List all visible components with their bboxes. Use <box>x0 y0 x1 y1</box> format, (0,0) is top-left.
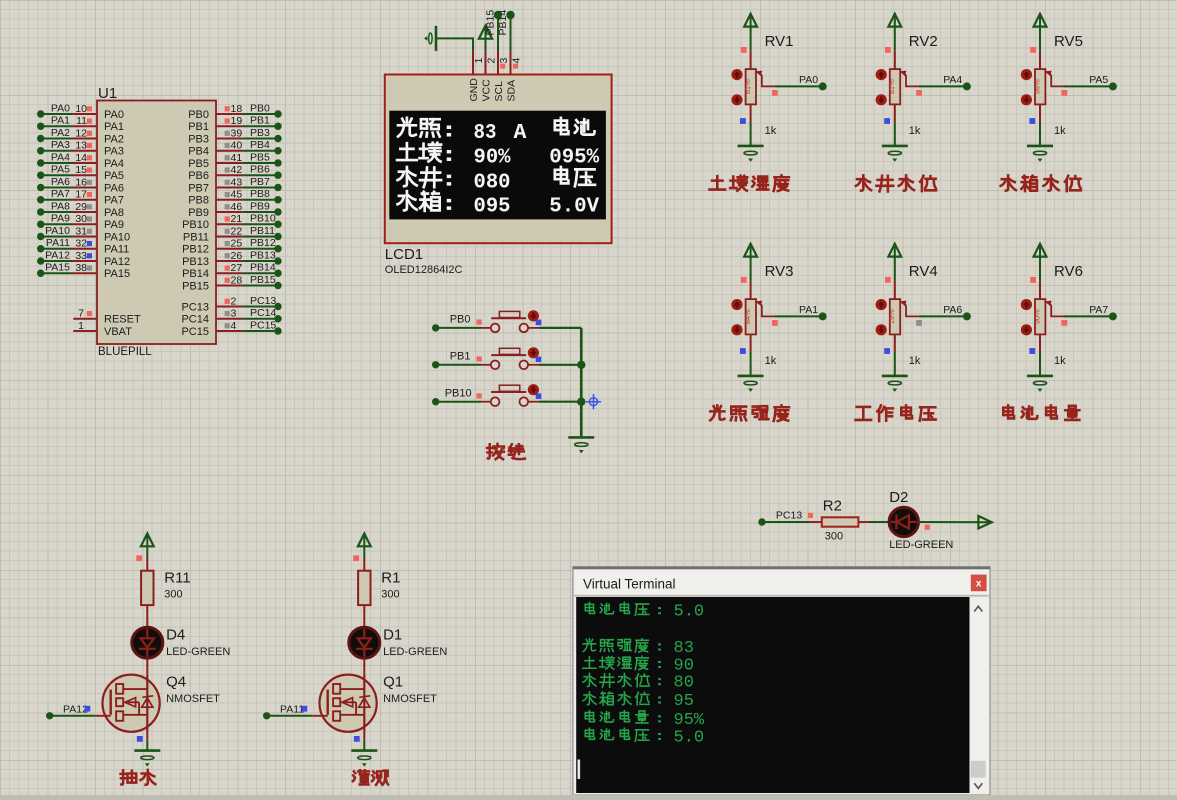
caption Q1 <box>353 770 388 785</box>
svg-text:PA2: PA2 <box>51 127 70 139</box>
svg-text:PA3: PA3 <box>51 139 70 151</box>
svg-text:PB8: PB8 <box>250 188 270 200</box>
svg-text:PA10: PA10 <box>45 225 70 237</box>
svg-text:PA4: PA4 <box>104 158 124 170</box>
terminal text: well 80 <box>583 673 694 692</box>
svg-text:1k: 1k <box>1054 125 1066 137</box>
svg-text:11: 11 <box>76 115 87 127</box>
svg-text:17: 17 <box>75 189 87 201</box>
svg-text:PB11: PB11 <box>183 231 209 243</box>
svg-text:90: 90 <box>674 657 694 676</box>
push button PB0 <box>491 311 528 332</box>
svg-text:NMOSFET: NMOSFET <box>166 693 220 705</box>
svg-text:PA1: PA1 <box>799 304 818 316</box>
svg-text:61%: 61% <box>743 79 752 94</box>
interactive decrement button RV6 <box>1021 324 1032 335</box>
wire D2 to power arrow <box>919 521 992 523</box>
pin PC14 (3) wire, node PC14 <box>181 307 281 325</box>
pin PA10 (31) wire, node PA10 <box>37 225 130 243</box>
svg-text:PB10: PB10 <box>182 219 209 231</box>
svg-text:95%: 95% <box>674 711 705 730</box>
wire D1 to Q1 drain <box>363 658 365 675</box>
svg-text:PB9: PB9 <box>250 200 270 212</box>
svg-text:PA7: PA7 <box>51 188 70 200</box>
node PA11 gate wire <box>263 704 328 720</box>
ground (LCD, pointing left) <box>424 26 436 51</box>
wire RV5 bottom <box>1039 104 1041 145</box>
svg-text:PA1: PA1 <box>51 115 70 127</box>
state square R11 top <box>136 555 142 561</box>
svg-text:26: 26 <box>231 250 243 262</box>
state square RV2 pin3 <box>884 118 890 124</box>
LCD pin4 state square <box>513 64 518 69</box>
LED D4 LED-GREEN <box>132 626 231 658</box>
svg-text:VBAT: VBAT <box>104 326 132 338</box>
potentiometer RV3 1k body <box>743 263 794 367</box>
pin PA3 (13) wire, node PA3 <box>37 139 124 157</box>
LCD1 OLED12864I2C display body <box>385 75 612 277</box>
power VCC arrow at LCD pin 2 <box>479 26 492 52</box>
svg-text:BLUEPILL: BLUEPILL <box>98 346 152 358</box>
svg-text:PA6: PA6 <box>104 182 124 194</box>
power arrow (RV4 top) <box>888 244 901 257</box>
wire R1 top <box>363 546 365 570</box>
LCD pin 2 VCC stub and number <box>481 51 498 102</box>
svg-text:95: 95 <box>674 692 694 711</box>
svg-text:080: 080 <box>474 170 511 194</box>
interactive actuator button PB0 <box>528 310 539 321</box>
svg-text:PB0: PB0 <box>188 109 209 121</box>
svg-text:22: 22 <box>231 225 243 237</box>
svg-text:PB13: PB13 <box>250 249 276 261</box>
svg-text:PC15: PC15 <box>250 319 276 331</box>
state square RV5 pin3 <box>1029 118 1035 124</box>
wire RV5 top <box>1039 27 1041 70</box>
svg-text:R11: R11 <box>164 570 190 587</box>
node PA12 gate wire <box>46 704 111 720</box>
pin PB14 (27) wire, node PB14 <box>182 262 282 280</box>
svg-text:13: 13 <box>75 140 87 152</box>
svg-text:PC13: PC13 <box>776 509 802 521</box>
svg-text:PB0: PB0 <box>250 102 270 114</box>
pin PB11 (22) wire, node PB11 <box>183 225 282 243</box>
svg-text:1k: 1k <box>765 355 777 367</box>
LCD pin3 state square <box>500 64 505 69</box>
svg-text:PC14: PC14 <box>250 307 276 319</box>
Virtual Terminal screen <box>576 597 969 793</box>
svg-text:PB8: PB8 <box>188 195 209 207</box>
resistor R11 300 <box>141 570 191 606</box>
state square button PB0 <box>536 320 542 326</box>
microcontroller U1 BLUEPILL body <box>97 85 216 358</box>
svg-text:PB7: PB7 <box>188 182 209 194</box>
svg-text:PA9: PA9 <box>51 213 70 225</box>
interactive decrement button RV1 <box>731 94 742 105</box>
svg-text:45: 45 <box>231 189 243 201</box>
svg-text:RV5: RV5 <box>1054 33 1083 50</box>
svg-text:RV2: RV2 <box>909 33 938 50</box>
svg-text:PA11: PA11 <box>104 244 129 256</box>
svg-text:PA1: PA1 <box>104 121 124 133</box>
state square RV2 pin1 <box>885 47 891 53</box>
pin PB13 (26) wire, node PB13 <box>182 249 282 267</box>
interactive actuator button PB10 <box>528 384 539 395</box>
Virtual Terminal window frame <box>573 567 990 795</box>
state square R1 top <box>353 555 359 561</box>
wire RV3 bottom <box>750 334 752 376</box>
svg-text:PA10: PA10 <box>104 231 130 243</box>
svg-text:1k: 1k <box>909 125 921 137</box>
svg-text:1: 1 <box>473 58 485 64</box>
state square RV5 pin1 <box>1030 47 1036 53</box>
ground (RV2) <box>882 146 908 162</box>
wiper arrow and wire RV1 to node PA0 <box>756 71 827 96</box>
ground (RV1) <box>738 146 764 162</box>
state square RV6 pin1 <box>1030 277 1036 283</box>
pin PB1 (19) wire, node PB1 <box>188 115 281 133</box>
svg-text:PA15: PA15 <box>45 262 70 274</box>
state square button PB10 <box>536 393 542 399</box>
svg-text:4: 4 <box>231 320 237 332</box>
svg-text:PA4: PA4 <box>51 151 70 163</box>
wire R1 to D1 <box>363 605 365 627</box>
svg-text:46: 46 <box>231 201 243 213</box>
wire RV3 top <box>750 257 752 300</box>
svg-text:PB14: PB14 <box>497 10 509 36</box>
svg-text:39: 39 <box>231 127 243 139</box>
potentiometer RV4 1k body <box>887 263 938 367</box>
wiper arrow and wire RV6 to node PA7 <box>1045 301 1117 326</box>
svg-text:90%: 90% <box>1032 309 1041 324</box>
Virtual Terminal scrollbar <box>970 597 987 793</box>
svg-text:PB15: PB15 <box>485 10 497 36</box>
svg-text:PB10: PB10 <box>250 213 276 225</box>
svg-text:300: 300 <box>164 589 182 601</box>
svg-text:19%: 19% <box>887 309 896 324</box>
svg-text:29: 29 <box>75 201 87 213</box>
svg-text:300: 300 <box>825 531 843 543</box>
potentiometer RV2 1k body <box>887 33 938 137</box>
wire LCD SCL pin to node PB15 <box>485 10 503 51</box>
svg-text:x: x <box>976 579 982 590</box>
ground (RV6) <box>1027 376 1053 392</box>
pin PB12 (25) wire, node PB12 <box>182 237 282 255</box>
ground (RV5) <box>1027 146 1053 162</box>
wire D4 to Q4 drain <box>146 658 148 675</box>
wire RV1 bottom <box>750 104 752 145</box>
svg-text:PB6: PB6 <box>188 170 209 182</box>
interactive increment button RV2 <box>876 69 887 80</box>
caption RV5 <box>1001 175 1081 191</box>
svg-text:U1: U1 <box>98 85 117 102</box>
caption Q4 <box>121 770 156 785</box>
svg-text:1k: 1k <box>1054 355 1066 367</box>
power arrow (RV2 top) <box>888 14 901 27</box>
pin PB9 (46) wire, node PB9 <box>188 200 281 218</box>
caption RV3 <box>710 405 789 421</box>
svg-text:21: 21 <box>231 213 243 225</box>
svg-text:PA9: PA9 <box>104 219 124 231</box>
svg-text:30: 30 <box>75 213 87 225</box>
wiper arrow and wire RV2 to node PA4 <box>900 71 971 96</box>
svg-text:LCD1: LCD1 <box>385 246 423 263</box>
svg-text:PA12: PA12 <box>63 704 88 716</box>
ground (RV3) <box>738 376 764 392</box>
pin PB8 (45) wire, node PB8 <box>188 188 281 206</box>
pin PA5 (15) wire, node PA5 <box>37 164 124 182</box>
svg-text:PA11: PA11 <box>46 237 70 249</box>
svg-text:PB3: PB3 <box>250 127 270 139</box>
svg-text:PB0: PB0 <box>450 314 471 326</box>
LCD screen text row4: tank value <box>398 191 600 218</box>
svg-text:PA0: PA0 <box>104 109 124 121</box>
caption RV6 <box>1003 405 1079 420</box>
svg-text:38: 38 <box>75 262 87 274</box>
svg-text:PB1: PB1 <box>450 351 471 363</box>
pin PA12 (33) wire, node PA12 <box>37 249 130 267</box>
selection crosshair marker <box>586 394 601 409</box>
svg-text:SDA: SDA <box>506 80 518 102</box>
pin PA6 (16) wire, node PA6 <box>37 176 124 194</box>
svg-text:1: 1 <box>78 320 84 332</box>
svg-text:R1: R1 <box>381 570 400 587</box>
LED D1 LED-GREEN <box>349 626 448 658</box>
svg-text:PB15: PB15 <box>250 274 276 286</box>
svg-text:PA7: PA7 <box>104 195 124 207</box>
node PC13 wire <box>758 509 822 525</box>
svg-text:PB11: PB11 <box>250 225 275 237</box>
svg-text:PC13: PC13 <box>181 301 209 313</box>
svg-text:D1: D1 <box>383 626 402 643</box>
svg-text:10: 10 <box>75 103 87 115</box>
state square RV3 pin1 <box>741 277 747 283</box>
svg-text:PA0: PA0 <box>51 102 70 114</box>
svg-text:PB14: PB14 <box>182 268 209 280</box>
svg-text:3: 3 <box>498 58 510 64</box>
svg-text:PC14: PC14 <box>181 314 209 326</box>
svg-text:14: 14 <box>75 152 87 164</box>
interactive increment button RV5 <box>1021 69 1032 80</box>
pin PC13 (2) wire, node PC13 <box>181 295 281 313</box>
svg-text:095%: 095% <box>549 146 599 170</box>
svg-text:PC15: PC15 <box>181 326 209 338</box>
pin PA2 (12) wire, node PA2 <box>37 127 124 145</box>
pin PA4 (14) wire, node PA4 <box>37 151 124 169</box>
svg-text:PB1: PB1 <box>188 121 209 133</box>
svg-text:OLED12864I2C: OLED12864I2C <box>385 264 463 276</box>
pin PA7 (17) wire, node PA7 <box>37 188 124 206</box>
power arrow (RV6 top) <box>1034 244 1047 257</box>
svg-text:7: 7 <box>78 308 84 320</box>
pin PA0 (10) wire, node PA0 <box>37 102 124 120</box>
terminal text: soil 90 <box>583 656 694 675</box>
svg-text:PA6: PA6 <box>51 176 70 188</box>
svg-text:PA7: PA7 <box>1089 304 1108 316</box>
pin PB6 (42) wire, node PB6 <box>188 164 281 182</box>
svg-text:5.0: 5.0 <box>674 729 705 748</box>
svg-text:095: 095 <box>474 195 511 219</box>
pin PA8 (29) wire, node PA8 <box>37 200 124 218</box>
power arrow (RV5 top) <box>1034 14 1047 27</box>
wire RV1 top <box>750 27 752 70</box>
svg-text:PA5: PA5 <box>104 170 124 182</box>
pin PA11 (32) wire, node PA11 <box>37 237 129 255</box>
terminal text: battery voltage 5.0 <box>585 602 704 621</box>
svg-text:83: 83 <box>674 639 694 658</box>
svg-text:PA6: PA6 <box>943 304 962 316</box>
terminal text: light 83 <box>583 639 694 658</box>
potentiometer RV5 1k body <box>1032 33 1083 137</box>
svg-text:28: 28 <box>231 274 243 286</box>
pin PB10 (21) wire, node PB10 <box>182 213 282 231</box>
interactive decrement button RV3 <box>731 324 742 335</box>
interactive actuator button PB1 <box>528 347 539 358</box>
ground (RV4) <box>882 376 908 392</box>
svg-text:SCL: SCL <box>493 81 505 102</box>
transistor Q4 NMOSFET <box>103 674 221 732</box>
svg-text:Virtual Terminal: Virtual Terminal <box>583 577 676 592</box>
svg-text:GND: GND <box>468 78 480 102</box>
svg-text:PA0: PA0 <box>799 74 818 86</box>
wire LCD SDA pin to node PB14 <box>497 10 515 51</box>
wiper arrow and wire RV4 to node PA6 <box>900 301 971 326</box>
svg-text:3: 3 <box>231 308 237 320</box>
LCD screen text row1: light value <box>398 118 595 145</box>
wire button PB0 to bus <box>528 327 581 329</box>
svg-text:16: 16 <box>75 176 87 188</box>
svg-text:300: 300 <box>381 589 399 601</box>
wire button PB1 to bus <box>528 364 581 366</box>
power arrow (RV3 top) <box>744 244 757 257</box>
power arrow (R1 top) <box>358 534 371 548</box>
wire RV6 bottom <box>1039 334 1041 376</box>
svg-text:40: 40 <box>231 140 243 152</box>
svg-text:RESET: RESET <box>104 314 141 326</box>
LCD screen text row3: well value <box>398 167 595 194</box>
caption RV2 <box>856 175 936 191</box>
svg-text:80: 80 <box>674 674 694 693</box>
pin PB15 (28) wire, node PB15 <box>182 274 282 292</box>
svg-text:33: 33 <box>75 250 87 262</box>
pin PA1 (11) wire, node PA1 <box>37 115 124 133</box>
wire RV6 top <box>1039 257 1041 300</box>
svg-text:NMOSFET: NMOSFET <box>383 693 437 705</box>
LCD pin 4 SDA stub and number <box>506 51 523 102</box>
svg-text:Q4: Q4 <box>166 674 186 691</box>
svg-text:RV6: RV6 <box>1054 263 1083 280</box>
svg-text:12: 12 <box>75 127 87 139</box>
svg-text:PB10: PB10 <box>445 388 472 400</box>
wire R11 top <box>146 546 148 570</box>
resistor R1 300 <box>358 570 400 606</box>
svg-text:PA11: PA11 <box>280 704 304 716</box>
resistor R2 300 <box>822 498 859 543</box>
svg-text:A: A <box>514 121 527 145</box>
svg-text:PA5: PA5 <box>51 164 70 176</box>
wiper arrow and wire RV3 to node PA1 <box>756 301 827 326</box>
svg-text:25: 25 <box>231 238 243 250</box>
wire button PB10 to bus <box>528 401 581 403</box>
push button PB1 <box>491 348 528 369</box>
svg-text:42: 42 <box>231 164 243 176</box>
svg-text:1k: 1k <box>765 125 777 137</box>
svg-text:PB12: PB12 <box>250 237 276 249</box>
state square RV3 pin3 <box>740 348 746 354</box>
node PB10 wire to button <box>432 388 491 406</box>
state square button PB1 <box>536 357 542 363</box>
wire LCD GND pin to ground <box>436 38 473 51</box>
svg-text:27: 27 <box>231 262 243 274</box>
svg-text:PB13: PB13 <box>182 256 209 268</box>
LED D2 LED-GREEN <box>889 489 953 551</box>
button common bus wire <box>580 328 583 438</box>
svg-text:5.0: 5.0 <box>674 603 705 622</box>
caption RV1 <box>709 175 788 191</box>
svg-text:41: 41 <box>231 152 243 164</box>
wire RV4 top <box>894 257 896 300</box>
svg-text:LED-GREEN: LED-GREEN <box>889 539 953 551</box>
svg-text:RV3: RV3 <box>765 263 794 280</box>
svg-text:R2: R2 <box>823 498 842 515</box>
svg-text:96%: 96% <box>1032 79 1041 94</box>
state square Q1 source <box>354 736 360 742</box>
state square RV6 pin3 <box>1029 348 1035 354</box>
interactive increment button RV1 <box>731 69 742 80</box>
pin PB0 (18) wire, node PB0 <box>188 102 281 120</box>
pin PA9 (30) wire, node PA9 <box>37 213 124 231</box>
svg-text:PA15: PA15 <box>104 268 130 280</box>
pin PB7 (43) wire, node PB7 <box>188 176 281 194</box>
state square RV1 pin3 <box>740 118 746 124</box>
caption RV4 <box>855 405 935 421</box>
svg-text:RV4: RV4 <box>909 263 938 280</box>
svg-text:PB3: PB3 <box>188 133 209 145</box>
terminal text: tank 95 <box>583 692 694 711</box>
svg-text:PA8: PA8 <box>104 207 124 219</box>
svg-text:PA2: PA2 <box>104 133 124 145</box>
svg-text:PB14: PB14 <box>250 262 276 274</box>
svg-text:19: 19 <box>231 115 243 127</box>
svg-text:83: 83 <box>474 121 497 145</box>
svg-text:PB15: PB15 <box>182 280 209 292</box>
LCD1 screen <box>389 111 606 220</box>
pin PB3 (39) wire, node PB3 <box>188 127 281 145</box>
svg-text:2: 2 <box>486 58 498 64</box>
junction at PB10 row <box>577 398 585 406</box>
power arrow (R11 top) <box>141 534 154 548</box>
svg-text:PC13: PC13 <box>250 295 276 307</box>
svg-text:81%: 81% <box>887 79 896 94</box>
svg-text:4: 4 <box>511 58 523 64</box>
power arrow (D2 right, pointing right) <box>978 516 991 528</box>
junction at PB1 row <box>577 361 585 369</box>
svg-text:PB9: PB9 <box>188 207 209 219</box>
potentiometer RV6 1k body <box>1032 263 1083 367</box>
svg-text:PA5: PA5 <box>1089 74 1108 86</box>
svg-text:31: 31 <box>75 225 87 237</box>
svg-text:PA4: PA4 <box>943 74 962 86</box>
svg-text:43: 43 <box>231 176 243 188</box>
svg-text:D2: D2 <box>889 489 908 506</box>
pin RESET (7) <box>73 308 141 326</box>
svg-text:5.0V: 5.0V <box>549 195 599 219</box>
svg-text:90%: 90% <box>474 146 511 170</box>
wire RV2 bottom <box>894 104 896 145</box>
pin PC15 (4) wire, node PC15 <box>181 319 281 337</box>
svg-text:18: 18 <box>231 103 243 115</box>
state square D2 <box>925 525 930 530</box>
pin PB4 (40) wire, node PB4 <box>188 139 281 157</box>
